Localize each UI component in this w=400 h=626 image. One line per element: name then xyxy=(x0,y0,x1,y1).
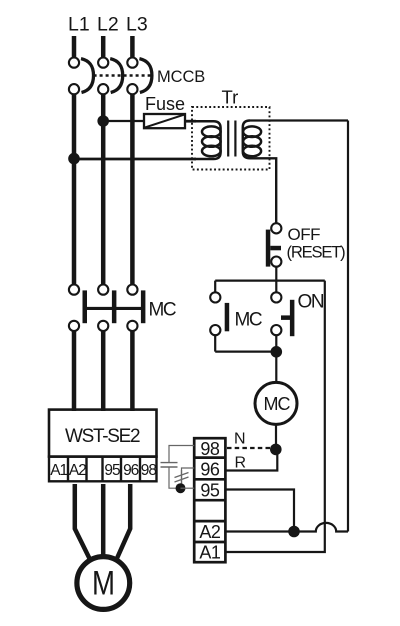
svg-text:ON: ON xyxy=(298,292,324,313)
node junction internal 95 xyxy=(176,483,186,493)
wire L3 to relay box xyxy=(130,331,135,411)
pushbutton ON (NO) xyxy=(271,281,294,352)
wire 98 left stub xyxy=(169,446,194,463)
fuse F1 body xyxy=(144,114,185,128)
wire motor phase V xyxy=(101,484,106,557)
svg-text:WST-SE2: WST-SE2 xyxy=(65,426,140,447)
wire motor phase U xyxy=(75,484,91,561)
svg-text:R: R xyxy=(235,455,247,472)
transformer Tr enclosure (dotted) xyxy=(192,107,270,170)
svg-text:N: N xyxy=(234,431,246,448)
node junction N/R xyxy=(270,444,282,456)
node junction 95/A2 xyxy=(288,526,300,538)
svg-text:MC: MC xyxy=(264,394,291,414)
svg-text:96: 96 xyxy=(123,462,139,479)
svg-text:Tr: Tr xyxy=(222,87,239,108)
svg-text:A1: A1 xyxy=(199,543,221,563)
wire coil bottom to node xyxy=(275,424,277,447)
contact MC auxiliary (NO) xyxy=(210,281,229,352)
svg-text:98: 98 xyxy=(141,462,157,479)
breaker MCCB pole 2 xyxy=(98,58,123,95)
svg-text:Fuse: Fuse xyxy=(145,94,185,114)
wire OFF bottom to node xyxy=(275,266,277,280)
svg-text:L3: L3 xyxy=(126,14,148,36)
wire fuse to transformer primary xyxy=(185,120,196,123)
svg-text:MCCB: MCCB xyxy=(157,68,205,86)
motor M xyxy=(77,557,130,610)
wire internal node to 95 xyxy=(181,487,195,489)
wire terminal A2 to right rail (with hop) xyxy=(226,523,348,532)
node junction below ON/aux xyxy=(271,346,283,358)
svg-text:M: M xyxy=(92,565,115,603)
svg-text:MC: MC xyxy=(235,310,262,331)
transformer Tr core xyxy=(228,121,235,157)
transformer Tr secondary coil xyxy=(243,121,261,159)
wire L2 middle xyxy=(101,94,106,285)
wire 96 left stub xyxy=(182,468,195,484)
wire N (dashed) to terminal 98 xyxy=(227,447,271,449)
svg-text:98: 98 xyxy=(200,439,220,459)
wire motor phase W xyxy=(116,484,130,561)
wire L1 middle xyxy=(72,94,77,285)
pushbutton OFF (NC) xyxy=(266,223,282,267)
node junction L2-fuse xyxy=(97,115,109,127)
breaker MCCB dashed link xyxy=(94,74,152,76)
wire capacitor to 95 node xyxy=(169,468,176,489)
wire L3 middle xyxy=(130,94,135,285)
wire aux bottom to junction xyxy=(215,351,276,353)
terminal block right: frame xyxy=(194,438,225,562)
svg-text:(RESET): (RESET) xyxy=(287,244,346,262)
svg-text:95: 95 xyxy=(200,480,220,500)
wire terminal 95 to A2 junction xyxy=(226,490,294,529)
breaker MCCB pole 1 xyxy=(69,58,94,95)
wire L1 top xyxy=(72,36,77,58)
coil MC xyxy=(255,382,297,424)
wire R to terminal 96 xyxy=(226,453,277,471)
contactor MC main contacts xyxy=(69,285,145,332)
wire L3 top xyxy=(130,36,135,58)
wire junction to coil xyxy=(275,352,277,383)
svg-text:A2: A2 xyxy=(199,522,221,542)
wire transformer secondary top to right rail xyxy=(250,119,348,121)
relay WST-SE2 box xyxy=(49,410,157,457)
contact internal (trip) xyxy=(175,470,189,488)
wire L2 to relay box xyxy=(101,331,106,411)
node junction L1-transformer xyxy=(68,153,80,165)
transformer Tr primary coil xyxy=(194,121,221,159)
wire L2 to fuse xyxy=(103,120,144,122)
capacitor internal xyxy=(161,463,178,467)
wire L1 to relay box xyxy=(72,331,77,411)
breaker MCCB pole 3 xyxy=(127,58,152,95)
svg-text:96: 96 xyxy=(200,460,220,480)
svg-text:95: 95 xyxy=(104,462,120,479)
wire right rail down xyxy=(347,121,349,532)
wire transformer secondary bottom to OFF column xyxy=(250,158,276,223)
svg-text:L2: L2 xyxy=(97,14,119,36)
relay terminal strip xyxy=(49,457,157,482)
svg-text:A2: A2 xyxy=(69,462,86,479)
svg-text:MC: MC xyxy=(149,299,176,320)
wire terminal A1 to control bus xyxy=(226,281,325,552)
svg-text:A1: A1 xyxy=(50,462,67,479)
wire L1 to transformer primary bottom xyxy=(74,158,196,161)
svg-text:L1: L1 xyxy=(68,14,90,36)
wire L2 top xyxy=(101,36,106,58)
wire control horizontal bus xyxy=(215,280,325,282)
svg-text:OFF: OFF xyxy=(288,225,321,244)
